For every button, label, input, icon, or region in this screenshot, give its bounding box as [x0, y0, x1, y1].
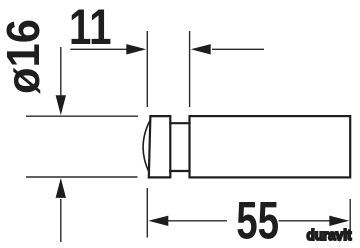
svg-text:duravit: duravit: [307, 227, 352, 244]
svg-text:55: 55: [236, 190, 279, 248]
svg-text:11: 11: [69, 0, 112, 55]
svg-text:ø16: ø16: [0, 19, 49, 94]
